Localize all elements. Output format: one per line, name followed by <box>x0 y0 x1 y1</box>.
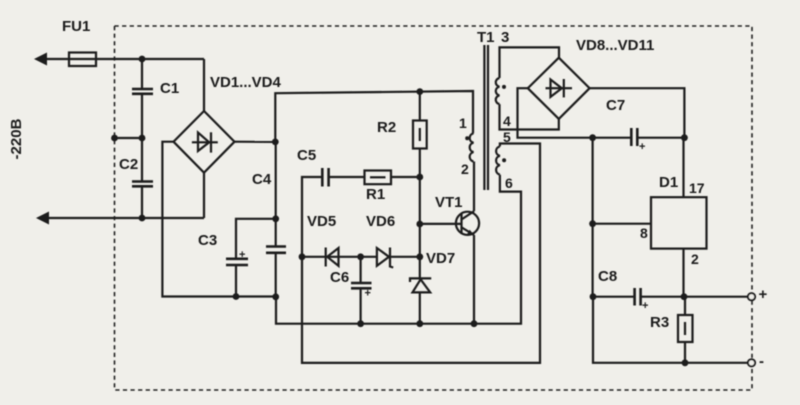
node C7 right <box>681 134 688 141</box>
plus mark C7 <box>639 141 645 153</box>
node C6 bottom <box>357 320 364 327</box>
node C1 top <box>139 56 146 63</box>
capacitor C8 polarized <box>635 288 641 306</box>
svg-text:D1: D1 <box>659 174 678 191</box>
label VD6 <box>366 213 395 230</box>
phase dot winding34 <box>502 85 506 89</box>
svg-text:R3: R3 <box>650 314 669 331</box>
svg-text:3: 3 <box>501 29 509 46</box>
resistor R2 <box>413 92 427 177</box>
wire C7 row <box>593 137 685 139</box>
plus mark C6 <box>365 288 371 300</box>
capacitor C2 <box>132 182 153 187</box>
phase dot winding56 <box>502 158 506 162</box>
arrow bottom input <box>36 212 49 225</box>
label VD5 <box>307 213 336 230</box>
node bridge1 plus <box>272 139 279 146</box>
node C8 left <box>590 293 597 300</box>
wire pin17 <box>682 138 684 198</box>
wire bridge1 right vertex to positive node <box>235 141 276 143</box>
capacitor C3 polarized <box>226 259 248 265</box>
label C5 <box>297 147 316 164</box>
bridge rectifier VD1-VD4 <box>174 111 235 173</box>
label C2 <box>119 156 138 173</box>
transformer T1 core <box>484 45 488 190</box>
label pin8 <box>640 225 648 241</box>
svg-text:C1: C1 <box>160 80 179 97</box>
zener diode VD7 <box>410 278 431 323</box>
node R1-R2 <box>416 174 423 181</box>
capacitor C1 <box>132 89 153 94</box>
label D1 <box>659 174 678 191</box>
wire bridge1 left vertex to lower rail <box>162 142 276 297</box>
label VD1...VD4 <box>210 74 282 91</box>
node base <box>416 221 423 228</box>
regulator D1 <box>651 197 707 248</box>
plus mark C8 <box>642 300 648 312</box>
svg-text:+: + <box>759 286 768 303</box>
node VD6-VD7 <box>416 253 423 260</box>
wire pin3 to bridge2 top <box>500 47 560 78</box>
label -220V input <box>8 118 25 159</box>
svg-text:1: 1 <box>459 115 467 131</box>
wire C1/C2 column <box>141 59 143 218</box>
svg-text:-220В: -220В <box>8 118 25 159</box>
node C7 left <box>589 134 596 141</box>
svg-text:VD7: VD7 <box>426 250 455 267</box>
node stub right <box>139 135 146 142</box>
wire bridge1 bottom vertex down <box>203 173 205 218</box>
fuse FU1 <box>69 53 96 67</box>
svg-text:+: + <box>239 249 245 261</box>
svg-text:6: 6 <box>505 175 513 191</box>
wire stub to border <box>115 137 143 139</box>
node stub left <box>111 135 118 142</box>
svg-text:C8: C8 <box>598 268 617 285</box>
wire collector up <box>473 162 475 212</box>
node emitter rail <box>471 320 478 327</box>
svg-text:+: + <box>639 141 645 153</box>
plus mark C3 <box>239 249 245 261</box>
node C4 top <box>272 215 279 222</box>
diode VD6 <box>377 248 393 268</box>
wire pin8 <box>593 223 651 225</box>
svg-text:VT1: VT1 <box>435 194 463 211</box>
resistor R3 <box>678 297 693 363</box>
wire base column <box>419 177 421 278</box>
wire minus rail <box>593 297 748 363</box>
emitter arrow VT1 <box>467 230 475 236</box>
wire to bridge1 top <box>203 59 205 111</box>
terminal plus <box>748 293 755 300</box>
wire top input <box>38 58 204 60</box>
svg-text:VD6: VD6 <box>366 213 395 230</box>
wire C4 column <box>275 142 277 297</box>
svg-text:4: 4 <box>503 113 511 129</box>
wire diode row <box>302 256 420 258</box>
svg-text:R2: R2 <box>377 119 396 136</box>
svg-text:+: + <box>365 288 371 300</box>
label FU1 <box>62 18 90 35</box>
label VD7 <box>426 250 455 267</box>
svg-text:5: 5 <box>503 129 511 145</box>
label VD8...VD11 <box>576 37 654 54</box>
label pin2 <box>691 251 699 267</box>
wire C3 branch <box>236 219 276 297</box>
primary winding 1-2 <box>470 133 474 161</box>
resistor R1 <box>365 171 392 185</box>
wire pin4 to bridge2 bottom <box>500 104 559 129</box>
node diode row left <box>299 253 306 260</box>
bridge rectifier VD8-VD11 <box>528 58 590 119</box>
label R2 <box>377 119 396 136</box>
wire C5 R1 row <box>302 177 420 257</box>
svg-text:FU1: FU1 <box>62 18 90 35</box>
wire bottom input <box>40 217 204 219</box>
wire positive rail top <box>275 91 473 142</box>
diode inside bridge2 <box>546 79 573 97</box>
label minus <box>759 353 764 370</box>
capacitor C4 <box>266 247 286 253</box>
svg-text:-: - <box>759 353 764 370</box>
label plus <box>759 286 768 303</box>
svg-text:VD5: VD5 <box>307 213 336 230</box>
node R3 bottom <box>682 359 689 366</box>
label C6 <box>330 269 349 286</box>
label pin4 <box>503 113 511 129</box>
wire emitter down <box>473 235 475 324</box>
transistor VT1 <box>420 211 479 235</box>
label pin3 <box>501 29 509 46</box>
svg-text:8: 8 <box>640 225 648 241</box>
svg-text:C2: C2 <box>119 156 138 173</box>
label pin17 <box>689 180 705 196</box>
label pin2 <box>461 161 469 177</box>
node output plus rail <box>681 293 688 300</box>
wire C8 row / plus rail <box>593 296 748 298</box>
secondary winding 3-4 <box>496 78 500 104</box>
svg-text:2: 2 <box>461 161 469 177</box>
node C4 bottom <box>272 293 279 300</box>
node R2 top <box>416 88 423 95</box>
diode inside bridge1 <box>192 132 218 152</box>
svg-text:C7: C7 <box>606 97 625 114</box>
arrow top input <box>34 53 47 66</box>
phase dot primary <box>465 136 469 140</box>
svg-text:R1: R1 <box>366 186 385 203</box>
label R1 <box>366 186 385 203</box>
node C2 bottom <box>139 215 146 222</box>
label pin6 <box>505 175 513 191</box>
svg-text:C4: C4 <box>252 171 272 188</box>
label C7 <box>606 97 625 114</box>
svg-text:T1: T1 <box>477 29 495 46</box>
label T1 <box>477 29 495 46</box>
capacitor C6 polarized <box>360 257 362 324</box>
wire bridge2 right vertex <box>590 88 685 138</box>
label pin1 <box>459 115 467 131</box>
wire feedback rail B <box>302 144 540 363</box>
svg-text:C6: C6 <box>330 269 349 286</box>
diode VD5 <box>326 248 339 267</box>
terminal minus <box>748 359 755 366</box>
label C4 <box>252 171 272 188</box>
svg-text:C3: C3 <box>198 232 217 249</box>
wire negative column right <box>591 138 593 297</box>
svg-text:2: 2 <box>691 251 699 267</box>
wire lower rail step <box>276 175 521 324</box>
label R3 <box>650 314 669 331</box>
label C8 <box>598 268 617 285</box>
svg-text:+: + <box>642 300 648 312</box>
svg-text:VD1...VD4: VD1...VD4 <box>210 74 282 91</box>
capacitor C5 <box>322 168 328 187</box>
svg-text:VD8...VD11: VD8...VD11 <box>576 37 654 54</box>
label pin5 <box>503 129 511 145</box>
secondary winding 5-6 <box>496 146 500 174</box>
module dashed border <box>115 26 753 390</box>
wire bridge2 left vertex <box>518 88 593 138</box>
label C3 <box>198 232 217 249</box>
node C6 top <box>357 253 364 260</box>
capacitor C7 polarized <box>631 128 637 146</box>
label VT1 <box>435 194 463 211</box>
node VD7 bottom <box>416 320 423 327</box>
wire pin2 <box>682 249 684 297</box>
label C1 <box>160 80 179 97</box>
node C3 bottom <box>233 293 240 300</box>
svg-text:17: 17 <box>689 180 705 196</box>
svg-text:C5: C5 <box>297 147 316 164</box>
node pin8 <box>589 220 596 227</box>
